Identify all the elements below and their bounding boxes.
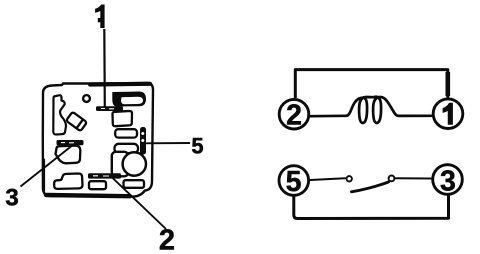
slot upper-right [112, 92, 146, 107]
label 3 [5, 184, 18, 211]
slot mid-right 2 [115, 129, 137, 137]
keyed slot (tilted) [66, 112, 87, 131]
label 2 [159, 225, 175, 254]
leader line to pin 5 [143, 142, 190, 144]
svg-text:5: 5 [191, 133, 203, 158]
switch contact: right post [389, 176, 395, 182]
relay coil (between 2 and 1) [311, 97, 431, 123]
switch blade [352, 182, 389, 192]
small slot below-left of 2 [89, 181, 106, 189]
switch contact: left lead (from 5) [311, 178, 346, 180]
terminal slot 3 (dark bar) [57, 140, 84, 145]
leader line to pin 1 [103, 29, 106, 107]
svg-text:3: 3 [5, 184, 18, 211]
slot mid-right 1 [112, 111, 132, 126]
round hole [123, 152, 146, 175]
switch contact: left post [347, 176, 352, 181]
leader line to pin 2 [110, 176, 166, 230]
boot-shaped slot [54, 174, 82, 189]
terminal circle 1 [433, 99, 463, 129]
svg-text:5: 5 [286, 166, 302, 198]
square slot [112, 152, 129, 177]
terminal slot 1 (dark bar) [96, 106, 123, 111]
switch contact: right lead (to 3) [395, 177, 432, 179]
terminal circle 5 [279, 166, 309, 198]
terminal slot 2 (dark bar) [88, 173, 121, 178]
keyway slot [53, 95, 66, 134]
pilot hole [83, 95, 90, 102]
label 5 [191, 133, 203, 158]
terminal circle 2 [279, 99, 309, 131]
terminal circle 3 [433, 165, 463, 198]
label 1 [95, 5, 105, 29]
svg-text:3: 3 [440, 165, 456, 197]
small slot right of 2 [124, 180, 145, 188]
terminal slot 5 (dark bar) [140, 127, 146, 155]
slot mid-right 3 [115, 144, 139, 153]
wire: bottom (terminal 5 to terminal 3) [294, 196, 449, 219]
leader line to pin 3 [21, 143, 77, 187]
svg-text:2: 2 [286, 99, 302, 131]
relay connector body (bottom view) [43, 83, 153, 197]
svg-text:2: 2 [159, 225, 175, 254]
slot below terminal 3 [56, 146, 81, 164]
wire: top (terminal 2 to terminal 1) [295, 70, 448, 98]
